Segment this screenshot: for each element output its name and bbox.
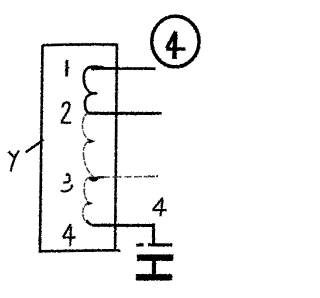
cusp tick 3	[87, 202, 92, 205]
callout digit 4	[166, 31, 185, 49]
capacitor C top plate	[136, 243, 172, 247]
wire tap 3	[97, 176, 105, 178]
inductor L winding lower turns (faint)	[82, 113, 93, 225]
cusp tick 1	[94, 92, 97, 95]
ground bar	[136, 274, 172, 281]
terminal callout circle	[152, 16, 199, 67]
cusp tick 2	[89, 140, 94, 143]
label y	[9, 151, 19, 172]
leader line from y to box	[26, 140, 44, 153]
wire tap 2	[89, 112, 163, 115]
shield box Y	[40, 44, 120, 251]
pin label 4	[63, 224, 76, 246]
node label 4	[152, 198, 166, 217]
capacitor C bottom plate	[137, 254, 174, 261]
pin label 3	[63, 174, 69, 183]
winding lower end (dark)	[87, 220, 93, 226]
wire capacitor to ground	[152, 261, 156, 274]
junction blob at tap 3	[89, 177, 99, 181]
pin label 2	[62, 102, 71, 122]
wire tap 4 to capacitor	[93, 223, 154, 243]
inductor L winding upper turns	[84, 67, 104, 114]
pin label 1	[65, 60, 68, 77]
wire tap 1	[91, 67, 156, 70]
